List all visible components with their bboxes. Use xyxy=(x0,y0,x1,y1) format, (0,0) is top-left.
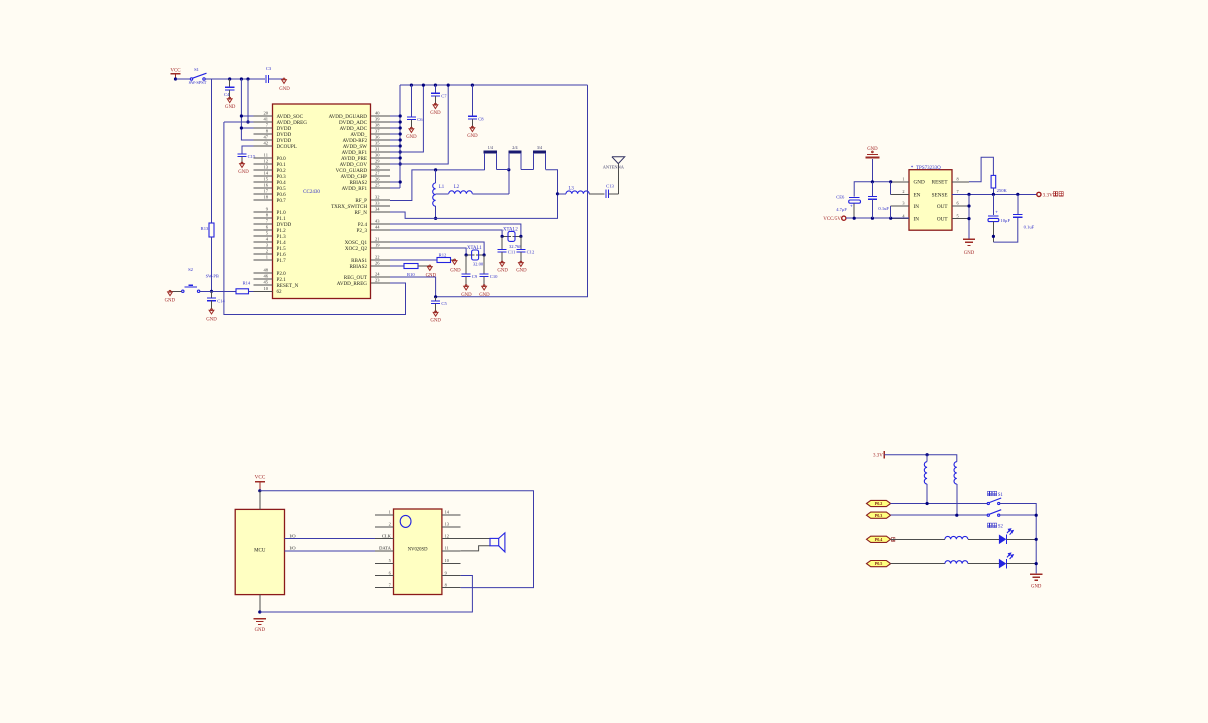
svg-text:48: 48 xyxy=(264,268,269,273)
wire P0.5 to inductor xyxy=(891,563,945,565)
node P0.3 ind xyxy=(955,514,958,517)
node AVDD vert junction xyxy=(246,77,249,80)
wire VCC to S1 xyxy=(176,78,191,80)
wire AVDD rail right side loop xyxy=(436,85,588,297)
svg-text:43: 43 xyxy=(375,219,380,224)
node DVDD vert junction xyxy=(240,77,243,80)
svg-text:0.1uF: 0.1uF xyxy=(1024,225,1035,230)
IC MCU xyxy=(235,509,284,594)
CC2430 right pin stubs, numbers and names xyxy=(329,111,390,287)
inductor L1 xyxy=(435,170,437,183)
svg-text:*: * xyxy=(911,165,914,171)
wire S2 to gnd rail xyxy=(1000,514,1036,516)
switch key S1 (zhuce) xyxy=(988,491,992,495)
ground right of R10 xyxy=(427,267,432,271)
node pin20 xyxy=(240,114,243,117)
inductor P0.4 row xyxy=(945,536,968,539)
svg-text:250K: 250K xyxy=(997,188,1008,193)
svg-text:14: 14 xyxy=(264,171,269,176)
svg-text:GND: GND xyxy=(914,180,925,186)
svg-text:L2: L2 xyxy=(454,185,460,190)
capacitor 0.1uF input xyxy=(871,182,873,197)
node pin41 xyxy=(246,120,249,123)
capacitor C9 xyxy=(465,255,467,274)
svg-text:39: 39 xyxy=(375,117,380,122)
wire pin7 DVDD xyxy=(241,127,272,129)
port 3.3V output xyxy=(1037,192,1041,196)
resistor 250K xyxy=(991,175,996,188)
svg-text:TPS73233Q: TPS73233Q xyxy=(916,166,941,171)
port flag P0.5 xyxy=(867,561,891,567)
svg-text:2: 2 xyxy=(902,189,904,194)
svg-text:VCC/5V: VCC/5V xyxy=(823,217,841,222)
node C4 junction xyxy=(228,77,231,80)
wire GND rail to NV020SD pin9 xyxy=(260,576,473,613)
TPS73233 left pins xyxy=(890,177,925,223)
wire XOSC_Q1 to XTAL1 right xyxy=(390,242,484,255)
svg-text:GND: GND xyxy=(1031,585,1042,590)
wire IN pin3 to 5V rail xyxy=(890,206,892,218)
node SW-PB junction xyxy=(210,290,213,293)
node pin7 xyxy=(240,126,243,129)
svg-text:44: 44 xyxy=(375,225,380,230)
wire AVDD vertical bus xyxy=(399,85,401,188)
resistor R10 on RBIAS2 xyxy=(390,265,404,267)
wire pin20 AVDD_SOC xyxy=(241,115,272,117)
svg-text:3.3V: 3.3V xyxy=(873,453,883,458)
ground under C8 xyxy=(470,128,475,132)
resistor R14 xyxy=(236,289,249,294)
switch S1 SW-SPST xyxy=(190,78,192,80)
svg-text:26: 26 xyxy=(375,261,380,266)
svg-text:MCU: MCU xyxy=(254,548,266,553)
svg-text:GND: GND xyxy=(206,317,217,322)
svg-text:GND: GND xyxy=(964,251,975,256)
inductor P0.5 row xyxy=(945,561,968,564)
wire junction to R14 xyxy=(200,290,236,292)
wires AVDD pins to bus xyxy=(390,114,402,183)
IC NV020SD xyxy=(394,509,442,595)
node L1 bottom xyxy=(434,217,437,220)
ground under MCU xyxy=(254,618,266,620)
capacitor C7 xyxy=(434,85,436,93)
ground LED block xyxy=(1030,573,1042,575)
node rail riser2 xyxy=(447,84,450,87)
svg-text:NV020SD: NV020SD xyxy=(408,548,428,553)
svg-text:P0.4: P0.4 xyxy=(875,537,883,542)
svg-text:P0.3: P0.3 xyxy=(875,513,883,518)
wire MCU I/O DATA xyxy=(285,550,375,552)
svg-text:AVDD_RF1: AVDD_RF1 xyxy=(342,186,368,192)
wire VCC rail to NV020SD pin8 xyxy=(260,491,534,588)
IC U? CC2430 xyxy=(273,104,371,299)
antenna ANTENNA xyxy=(612,157,625,164)
capacitor C8 xyxy=(471,85,473,116)
svg-text:10μF: 10μF xyxy=(1000,218,1010,223)
node L1 top xyxy=(434,168,437,171)
wire VCC to MCU top xyxy=(259,491,261,510)
svg-text:21: 21 xyxy=(375,237,380,242)
capacitor C4 xyxy=(229,79,231,87)
ground under C14 xyxy=(209,310,214,314)
svg-text:C9: C9 xyxy=(472,274,478,279)
inductor top-left vertical xyxy=(926,455,928,462)
wire vertical to AVDD_SOC/DVDD xyxy=(241,79,272,140)
svg-text:P2_3: P2_3 xyxy=(357,228,368,234)
ground under C7 xyxy=(433,105,438,109)
svg-text:45: 45 xyxy=(264,280,269,285)
NV020SD left pins xyxy=(375,510,394,588)
svg-text:27: 27 xyxy=(375,171,380,176)
node rail C6 xyxy=(410,84,413,87)
svg-text:12: 12 xyxy=(264,159,269,164)
ground under C10 xyxy=(482,286,487,290)
LED P0.5 row xyxy=(999,559,1006,569)
svg-text:C3: C3 xyxy=(266,66,272,71)
svg-text:C13: C13 xyxy=(606,183,614,188)
svg-text:33: 33 xyxy=(375,201,380,206)
node sense b xyxy=(992,193,995,196)
svg-text:C12: C12 xyxy=(527,250,535,255)
node out6 xyxy=(967,204,970,207)
capacitor C14 xyxy=(211,291,213,298)
svg-text:31: 31 xyxy=(375,147,380,152)
svg-text:12: 12 xyxy=(445,534,449,539)
svg-text:35: 35 xyxy=(375,141,380,146)
wire LED to gnd rail P0.4 xyxy=(1006,538,1036,540)
svg-text:20: 20 xyxy=(264,111,269,116)
svg-text:C14: C14 xyxy=(217,298,225,303)
svg-text:SENSE: SENSE xyxy=(932,192,948,198)
svg-text:24: 24 xyxy=(375,272,380,277)
svg-text:RF_N: RF_N xyxy=(355,210,368,216)
IC U? TPS73233Q xyxy=(909,170,952,231)
wire XOC2_Q2 to XTAL1 left xyxy=(390,248,466,255)
capacitor C11 xyxy=(501,236,503,249)
svg-text:C6: C6 xyxy=(417,117,423,122)
NV020SD right pins xyxy=(442,510,461,588)
svg-text:C10: C10 xyxy=(490,274,498,279)
wire TPS pin1 rail xyxy=(854,182,890,197)
svg-text:GND: GND xyxy=(238,170,249,175)
svg-text:+: + xyxy=(995,209,998,214)
wire vertical to R13 xyxy=(211,79,213,223)
svg-text:I/O: I/O xyxy=(290,546,297,551)
svg-text:SW-SPST: SW-SPST xyxy=(189,80,207,85)
switch key S2 (shuju) xyxy=(988,523,992,527)
svg-text:5: 5 xyxy=(957,213,959,218)
svg-text:S1: S1 xyxy=(998,493,1004,498)
svg-text:3/4: 3/4 xyxy=(537,145,542,150)
ground under C4 xyxy=(227,99,232,103)
svg-text:C11: C11 xyxy=(508,250,516,255)
wire AVDD top rail xyxy=(400,84,587,86)
svg-text:40: 40 xyxy=(375,111,380,116)
svg-text:36: 36 xyxy=(375,135,380,140)
svg-text:GND: GND xyxy=(497,269,508,274)
svg-text:P0.5: P0.5 xyxy=(875,561,883,566)
speaker LS1 xyxy=(490,538,499,545)
wire LED to gnd rail P0.5 xyxy=(1006,563,1036,565)
svg-text:46: 46 xyxy=(264,274,269,279)
ground under TPS outputs xyxy=(963,238,975,240)
svg-text:C5: C5 xyxy=(441,301,447,306)
wire R14 to pin10 xyxy=(249,290,273,292)
node C5 junction xyxy=(434,295,437,298)
svg-text:11: 11 xyxy=(264,153,268,158)
svg-text:37: 37 xyxy=(375,129,380,134)
svg-text:C4: C4 xyxy=(224,92,230,97)
svg-text:AVDD_RREG: AVDD_RREG xyxy=(337,281,368,287)
svg-text:GND: GND xyxy=(479,293,490,298)
wire MCU I/O CLK xyxy=(285,538,375,540)
wire R13 to SW-PB junction xyxy=(211,237,213,291)
svg-text:23: 23 xyxy=(375,278,380,283)
wire pin25 AVDD_RF1 xyxy=(390,187,400,189)
node pin1 rail b xyxy=(889,180,892,183)
svg-text:L3: L3 xyxy=(569,187,575,192)
svg-text:18: 18 xyxy=(264,195,269,200)
node 10uF bottom xyxy=(992,235,995,238)
svg-text:R10: R10 xyxy=(407,272,415,277)
ground right of R12 xyxy=(452,261,457,265)
svg-text:15: 15 xyxy=(264,177,269,182)
svg-text:11: 11 xyxy=(445,546,449,551)
wire S1 to C3 xyxy=(205,78,265,80)
svg-text:3: 3 xyxy=(902,201,904,206)
node ind1 top xyxy=(926,453,929,456)
svg-text:2: 2 xyxy=(266,249,268,254)
svg-text:2: 2 xyxy=(389,522,391,527)
svg-text:GND: GND xyxy=(461,293,472,298)
svg-text:3.3V: 3.3V xyxy=(1043,192,1053,198)
svg-text:S1: S1 xyxy=(194,67,200,72)
svg-text:GND: GND xyxy=(255,628,266,633)
svg-text:41: 41 xyxy=(264,117,269,122)
inductor L2 xyxy=(436,193,449,195)
node rail C7 xyxy=(434,84,437,87)
svg-text:1: 1 xyxy=(389,510,391,515)
svg-text:C7: C7 xyxy=(441,93,447,98)
svg-text:P1.7: P1.7 xyxy=(277,258,287,264)
svg-text:25: 25 xyxy=(375,183,380,188)
wire balun segments xyxy=(497,169,510,171)
capacitor C6 xyxy=(410,85,412,116)
wire REG_OUT to rail loop xyxy=(390,277,436,297)
svg-text:GND: GND xyxy=(279,87,290,92)
svg-text:R14: R14 xyxy=(243,280,251,285)
ground under C11 xyxy=(500,263,505,267)
CC2430 left pin stubs, numbers and names xyxy=(254,111,308,296)
svg-text:22: 22 xyxy=(375,255,380,260)
ground under C15 xyxy=(240,164,245,168)
svg-text:17: 17 xyxy=(264,189,269,194)
port flag P0.4 xyxy=(867,536,891,542)
inductor top-right vertical xyxy=(954,462,957,484)
svg-text:GND: GND xyxy=(516,269,527,274)
node antenna feed xyxy=(556,192,559,195)
ground under C5 xyxy=(433,312,438,316)
svg-text:GND: GND xyxy=(406,135,417,140)
wire OUT pins to sense bus xyxy=(968,194,970,239)
LED P0.4 row xyxy=(999,535,1006,545)
capacitor C15 xyxy=(237,153,246,155)
node gnd rail b xyxy=(1035,514,1038,517)
ground left of S2 xyxy=(168,292,173,296)
wire S2 to ground xyxy=(170,290,182,292)
svg-text:GND: GND xyxy=(467,134,478,139)
node P0.2 ind xyxy=(926,502,929,505)
wire P2.4 to XTAL2 right xyxy=(390,224,521,236)
svg-text:XOC2_Q2: XOC2_Q2 xyxy=(345,246,368,252)
svg-text:32: 32 xyxy=(375,195,380,200)
svg-text:30: 30 xyxy=(375,153,380,158)
svg-text:ANTENNA: ANTENNA xyxy=(603,165,625,170)
svg-text:9: 9 xyxy=(445,570,447,575)
capacitor C5 xyxy=(435,297,437,301)
inductor L3 xyxy=(558,193,567,195)
wire pin31 to rail riser xyxy=(390,85,423,152)
node balun mid xyxy=(507,168,510,171)
wire AVDD_DREG long loop to AVDD_RREG xyxy=(224,122,406,315)
wire P0.3 to switch S2 xyxy=(891,514,987,516)
svg-text:32.00: 32.00 xyxy=(473,262,484,267)
svg-text:GND: GND xyxy=(430,319,441,324)
svg-text:34: 34 xyxy=(375,207,380,212)
wire 3.3V rail xyxy=(884,455,957,462)
svg-text:10: 10 xyxy=(445,558,449,563)
svg-text:8: 8 xyxy=(957,177,959,182)
svg-text:26: 26 xyxy=(375,177,380,182)
wire VCC/5V rail xyxy=(846,217,909,219)
svg-text:IN: IN xyxy=(914,217,920,223)
svg-text:S2: S2 xyxy=(998,525,1004,530)
node XTAL2 left xyxy=(501,235,504,238)
node pin1 rail a xyxy=(871,180,874,183)
node 5V rail b xyxy=(871,217,874,220)
svg-text:CE6: CE6 xyxy=(836,194,845,199)
ground right of C3 xyxy=(282,80,287,84)
wire output caps bottom xyxy=(993,217,1017,242)
svg-text:29: 29 xyxy=(375,159,380,164)
node MCU gnd xyxy=(258,610,261,613)
svg-text:62: 62 xyxy=(277,289,283,295)
capacitor 10uF electrolytic xyxy=(992,194,994,215)
node sense c xyxy=(1016,193,1019,196)
svg-text:VCC: VCC xyxy=(255,475,266,481)
capacitor C10 xyxy=(483,255,485,274)
svg-text:GND: GND xyxy=(165,299,176,304)
node 5V rail a xyxy=(853,217,856,220)
wire NV pin11 to speaker xyxy=(461,546,490,551)
svg-text:P0.2: P0.2 xyxy=(875,501,883,506)
svg-text:L1: L1 xyxy=(439,185,445,190)
svg-text:42: 42 xyxy=(264,141,269,146)
wire pin29 to rail riser xyxy=(390,85,448,164)
svg-text:IN: IN xyxy=(914,204,920,210)
ground under C9 xyxy=(464,286,469,290)
wire RESET to 250K resistor xyxy=(969,157,993,182)
svg-text:28: 28 xyxy=(375,165,380,170)
capacitor 0.1uF output xyxy=(1017,194,1019,214)
svg-text:EN: EN xyxy=(914,192,921,198)
svg-text:CC2430: CC2430 xyxy=(303,190,320,195)
svg-text:R13: R13 xyxy=(201,226,209,231)
svg-text:8: 8 xyxy=(445,582,447,587)
svg-text:R12: R12 xyxy=(439,252,447,257)
wire P0.4 to inductor xyxy=(891,538,945,540)
svg-text:4.7μF: 4.7μF xyxy=(836,207,847,212)
svg-text:S2: S2 xyxy=(188,267,194,272)
port flag P0.3 xyxy=(867,512,891,518)
svg-text:RESET_N: RESET_N xyxy=(277,283,299,289)
wire RF_P to balun xyxy=(390,170,485,201)
node VCC mcu xyxy=(258,489,261,492)
svg-text:32.768: 32.768 xyxy=(509,244,522,249)
svg-text:+: + xyxy=(850,204,853,209)
svg-text:DCOUPL: DCOUPL xyxy=(277,144,297,150)
wire L2 riser to balun xyxy=(508,170,510,194)
svg-text:C8: C8 xyxy=(478,116,484,121)
wire EN to GND rail xyxy=(890,182,892,195)
wire C3 to GND xyxy=(269,78,283,80)
svg-text:5: 5 xyxy=(389,558,391,563)
node out5 xyxy=(967,217,970,220)
wire C13 to antenna xyxy=(609,193,619,195)
wire P2_3 to XTAL2 left xyxy=(390,230,502,236)
svg-text:OUT: OUT xyxy=(937,217,948,223)
svg-text:OUT: OUT xyxy=(937,204,948,210)
svg-text:DATA: DATA xyxy=(379,546,392,551)
svg-text:CLK: CLK xyxy=(382,534,392,539)
ground under C12 xyxy=(519,263,524,267)
node 5V rail c xyxy=(889,217,892,220)
resistor R12 on RBAS1 xyxy=(390,259,437,261)
node XTAL2 right xyxy=(519,235,522,238)
wire NV pin12 to speaker xyxy=(461,538,490,540)
port flag P0.2 xyxy=(867,500,891,506)
svg-text:GND: GND xyxy=(430,111,441,116)
svg-text:47: 47 xyxy=(264,135,269,140)
svg-text:RBIAS2: RBIAS2 xyxy=(349,264,367,270)
resistor R13 xyxy=(209,223,214,237)
wire RF_N rail xyxy=(390,194,558,219)
svg-text:16: 16 xyxy=(264,183,269,188)
node XTAL1 left xyxy=(465,253,468,256)
svg-text:GND: GND xyxy=(450,268,461,273)
wire pin41 AVDD_DREG xyxy=(224,121,273,123)
node rail C8 xyxy=(471,84,474,87)
svg-text:1: 1 xyxy=(266,255,268,260)
svg-text:38: 38 xyxy=(375,123,380,128)
svg-text:SW-PB: SW-PB xyxy=(206,274,219,279)
svg-text:P0.7: P0.7 xyxy=(277,198,287,204)
wire S1 to gnd rail xyxy=(1000,504,1036,574)
wire MCU bottom to GND rail xyxy=(259,595,261,612)
node VCC junction xyxy=(174,77,177,80)
svg-text:10: 10 xyxy=(264,286,269,291)
svg-text:2/4: 2/4 xyxy=(512,145,517,150)
node rail riser1 xyxy=(422,84,425,87)
svg-text:19: 19 xyxy=(375,243,380,248)
svg-text:VCC: VCC xyxy=(170,69,181,74)
svg-text:GND: GND xyxy=(426,274,437,279)
svg-text:13: 13 xyxy=(445,522,449,527)
capacitor C12 xyxy=(520,236,522,249)
node XTAL1 right xyxy=(483,253,486,256)
node sense a xyxy=(967,193,970,196)
svg-text:13: 13 xyxy=(264,165,269,170)
